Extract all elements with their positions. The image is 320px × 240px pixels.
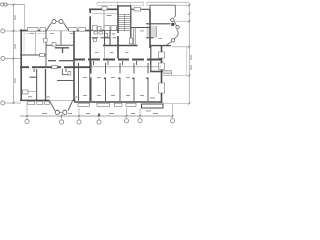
dimension tie right 2 [175, 20, 190, 22]
stair rungs [119, 14, 130, 31]
door leaves below corridor [94, 61, 151, 65]
top dim end caps [96, 2, 98, 5]
closet wall y60.7 left [48, 60, 56, 62]
extension line top-left [24, 5, 26, 30]
lobby wall y30 [90, 29, 118, 31]
exterior mini stair right [163, 70, 172, 75]
fixture box x68 [68, 71, 71, 75]
dimension line left vertical [13, 5, 15, 104]
tower partition x104 upper thin [103, 10, 105, 30]
dimension line right vertical [188, 3, 190, 104]
dimension slash ticks left [12, 3, 14, 104]
wing top wall [150, 4, 175, 6]
terrace bar bottom right [142, 104, 164, 108]
dimension line bottom [20, 115, 173, 117]
grid connector ticks bottom [26, 103, 28, 119]
partition vertical x74 [73, 31, 75, 101]
wall below turret [150, 45, 171, 47]
outer wall right [161, 46, 163, 103]
partitions bottom right rooms [78, 63, 80, 101]
table fixture room 1 [55, 48, 69, 53]
tower partition horizontal y45.5 [103, 45, 138, 47]
secondary dim segment right [186, 47, 188, 76]
door leaf x134.3 [134, 28, 136, 46]
stair right section [147, 26, 157, 38]
partition horizontal y55 [20, 54, 46, 56]
grid tie line left D [5, 102, 21, 104]
fixture box lower-left room [23, 90, 29, 94]
dimension slash ticks right [188, 4, 190, 105]
grid bubble left D [1, 101, 5, 105]
stairwell left wall [117, 6, 119, 61]
dimension line top second [97, 4, 117, 6]
partition door gaps [91, 74, 148, 78]
tiny dimension text marks [15, 15, 192, 114]
corridor door gaps right [85, 58, 147, 60]
partition vertical x36.6 lower [36, 69, 38, 101]
dimension line top (two chains) [97, 1, 144, 3]
thin wall y91.4 lower-left [22, 90, 37, 92]
partition vertical x46 [45, 31, 47, 67]
partition vertical x62.3 lower [61, 69, 63, 75]
bottom wall left section [20, 99, 50, 101]
bay window bottom [50, 101, 56, 111]
bay opening line top [47, 30, 69, 32]
short vertical x151 [150, 46, 152, 72]
corridor wall left section [20, 66, 90, 68]
grid bubble left C [1, 57, 5, 61]
tower wall y37.8 [92, 37, 99, 39]
turret bumps right [174, 15, 175, 18]
window box room top wall [134, 8, 141, 11]
partition horizontal y45.3 [46, 44, 75, 46]
stair landing wall [146, 37, 154, 39]
outer wall top (left section) [20, 30, 47, 32]
window boxes top wall [28, 28, 39, 31]
room bottom wall (x131-150) [131, 27, 151, 29]
door box on y45.3 [52, 43, 56, 46]
door gap stair left wall [117, 33, 119, 36]
door box on y55 [40, 53, 45, 56]
window box tower top wall [102, 6, 107, 10]
tower partition x110 [109, 30, 111, 45]
grid bubble left B [1, 29, 5, 33]
inner face line left room [23, 32, 25, 55]
door box on x46 [44, 38, 48, 42]
thin line x104.5 mid [104, 46, 106, 59]
corridor wall right section [74, 59, 162, 61]
tower top wall [89, 8, 118, 10]
room top wall (x131-150) [131, 8, 151, 10]
window box right wall 1 [159, 52, 165, 58]
outer wall left [20, 29, 22, 101]
grid tie line left C [5, 58, 21, 60]
stairwell right wall [130, 6, 132, 44]
wall right-mid vertical [149, 9, 151, 48]
grid bubble pair top-left [1, 3, 4, 6]
dimension slash ticks bottom [26, 115, 174, 117]
corridor second line right [90, 66, 161, 68]
benchmark triangle [98, 113, 101, 116]
wing bottom wall [146, 23, 171, 25]
door gap in tower left wall [89, 13, 91, 16]
partition horizontal y74.7 [62, 74, 70, 76]
grid tie line left B [5, 30, 21, 32]
window box right wall 2 [159, 83, 165, 93]
tower left wall [89, 9, 91, 102]
text dash near stair [159, 37, 163, 40]
wing right wall [174, 5, 176, 16]
wing junction blob [171, 23, 174, 26]
thin partition x35.5 upper [35, 32, 37, 56]
tower partition x104 lower dark [104, 30, 106, 45]
grid bubbles bottom row [25, 119, 29, 123]
door leaves below left corridor [33, 69, 35, 73]
stair door box [129, 38, 132, 44]
partition vertical x45.5 lower [45, 69, 47, 101]
partition vertical x61 [60, 31, 62, 45]
fixtures tower rooms [94, 32, 98, 35]
bay window top: diagonals and columns [47, 23, 52, 31]
window box right wall mid [159, 63, 165, 70]
connector wing to room [149, 5, 151, 9]
bay opening line bottom [50, 100, 73, 102]
dimension tie right 3 [172, 46, 189, 48]
stairwell top wall [117, 5, 131, 7]
grid tie line left top [6, 4, 25, 6]
wall right mid horizontal y71.5 [150, 71, 163, 73]
dimension tie right 1 [175, 4, 189, 6]
door jog marks [104, 78, 149, 80]
bottom wall right section [74, 101, 163, 103]
window boxes bottom-left wall [28, 101, 35, 104]
dimension tie right 4 [172, 75, 189, 77]
partition horizontal y80.5 [57, 80, 74, 82]
window boxes bottom-right wall [78, 103, 90, 106]
fixture bar lower left [30, 76, 37, 78]
lobby door boxes [93, 26, 98, 31]
table box on corridor [52, 65, 57, 68]
inner face line tower top room [92, 13, 117, 15]
dimension tie right 5 [163, 103, 189, 105]
